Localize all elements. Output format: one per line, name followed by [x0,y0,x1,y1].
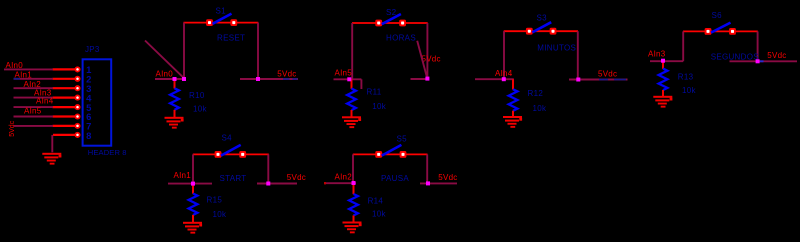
svg-text:AIn5: AIn5 [335,69,353,78]
wire node AIn1 [168,183,212,185]
svg-text:AIn0: AIn0 [6,61,24,70]
switch S3 right terminal [550,28,557,35]
svg-text:10k: 10k [372,102,386,111]
pin 5 dot [74,104,80,110]
wire top rail S3 [504,30,578,32]
svg-text:AIn0: AIn0 [156,69,174,78]
junction 5Vdc circuit 3 [576,78,580,82]
wire right vertical S2 [426,23,428,78]
svg-text:8: 8 [86,131,91,142]
ground circuit 4 [653,96,672,108]
wire top rail S2 [352,22,428,24]
connector JP3 body [83,59,112,145]
wire node AIn5 [334,78,362,80]
resistor R14 top lead [353,183,355,194]
svg-text:S2: S2 [386,8,397,17]
resistor R15 top lead [192,184,194,194]
svg-text:AIn2: AIn2 [24,80,42,89]
wire 5Vdc node circuit 6 [420,182,457,184]
wire pin 8 down to ground [51,135,53,152]
wire node AIn0 [155,78,184,80]
wire top rail S5 [353,153,428,155]
wire AIn1 to pin 2 [14,78,54,80]
switch S3 lever [532,22,551,32]
svg-text:AIn3: AIn3 [648,50,666,59]
stray diagonal wire [145,41,184,78]
svg-text:PAUSA: PAUSA [381,174,409,183]
wire left vertical S5 [352,154,354,183]
svg-text:S5: S5 [397,134,408,143]
svg-text:AIn5: AIn5 [24,106,42,115]
net tick 5Vdc circuit 3b [614,79,626,81]
wire right vertical S3 [577,31,579,79]
switch S2 left terminal [375,20,382,27]
svg-text:MINUTOS: MINUTOS [537,43,576,52]
svg-text:R14: R14 [368,196,384,205]
resistor R15 bottom lead [192,215,194,222]
pin 4 dot [74,95,80,101]
wire 5Vdc node circuit 1 [240,78,298,80]
wire top rail S6 [683,30,758,32]
junction AIn2 [352,181,356,185]
wire right vertical S4 [267,154,269,183]
net tick 5Vdc circuit 1b [293,78,298,80]
switch S6 lever [711,23,731,33]
pin 3 stub [53,87,78,89]
pin 2 stub [53,78,78,80]
net tick 5Vdc circuit 4 [760,60,764,62]
switch S5 right terminal [400,151,407,158]
ground circuit 2 [342,116,361,128]
wire AIn5 to pin 6 [14,116,54,118]
svg-text:10k: 10k [533,104,547,113]
svg-text:10k: 10k [213,210,227,219]
resistor R11 bottom lead [351,110,353,117]
junction 5Vdc circuit 1 [256,77,260,81]
resistor R10 top lead [174,79,176,89]
svg-text:SEGUNDOS: SEGUNDOS [711,53,759,62]
switch S1 right terminal [230,19,237,26]
svg-text:R13: R13 [678,73,694,82]
junction AIn1 [191,182,195,186]
pin 6 stub [53,115,78,117]
wire node AIn3 [650,60,683,62]
svg-text:AIn1: AIn1 [174,171,192,180]
svg-text:HEADER 8: HEADER 8 [88,148,127,157]
resistor R15 body [189,194,198,216]
ground circuit 5 [183,222,202,234]
resistor R12 top lead [512,79,514,89]
pin 5 stub [53,106,78,108]
svg-text:5Vdc: 5Vdc [438,173,457,182]
ground circuit 6 [343,222,362,234]
svg-text:10k: 10k [193,104,207,113]
svg-text:HORAS: HORAS [386,33,416,42]
wire left vertical S1 [183,23,185,79]
junction AIn0 resistor [173,77,177,81]
ground circuit 1 [165,117,184,129]
wire right vertical S5 [426,154,428,183]
switch S2 right terminal [399,20,406,27]
wire top rail S4 [193,153,269,155]
resistor R11 body [347,89,356,111]
wire node AIn5 stub down [360,79,362,89]
junction AIn0 corner [182,77,186,81]
svg-text:AIn2: AIn2 [335,173,353,182]
wire end dot AIn2 [324,182,326,184]
pin 2 dot [74,76,80,82]
svg-text:RESET: RESET [217,33,245,42]
wire left vertical S6 [682,31,684,61]
wire node AIn4 [475,78,514,80]
resistor R13 body [659,69,668,91]
wire AIn0 to pin 1 [4,68,53,70]
svg-text:5Vdc: 5Vdc [287,173,306,182]
wire AIn4 to pin 5 [14,106,54,108]
svg-text:AIn1: AIn1 [15,71,33,80]
svg-text:AIn4: AIn4 [495,69,513,78]
junction 5Vdc circuit 5 [266,182,270,186]
connector JP3 header block [83,45,127,157]
resistor R12 bottom lead [512,111,514,117]
wire AIn2 to pin 3 [14,87,54,89]
resistor R14 body [349,194,358,216]
pin 7 stub [53,125,78,127]
svg-text:10k: 10k [682,86,696,95]
pin 6 dot [74,113,80,119]
net tick 5Vdc circuit 3 [599,79,608,81]
switch S2 lever [382,14,401,24]
svg-text:JP3: JP3 [85,45,100,54]
resistor R13 top lead [662,61,664,69]
resistor R10 bottom lead [174,110,176,118]
junction AIn3 [661,59,665,63]
wire top rail S1 [184,22,259,24]
ground below header [42,153,61,165]
pin 4 stub [53,96,78,98]
svg-text:5Vdc: 5Vdc [277,70,296,79]
switch S5 left terminal [375,151,382,158]
switch S6 left terminal [705,28,712,35]
wire left vertical S4 [192,154,194,183]
svg-text:S4: S4 [222,134,233,143]
resistor R12 body [509,89,518,111]
resistor R11 top lead [351,79,353,89]
switch S3 left terminal [526,28,533,35]
power lead diagonal 5Vdc circuit 2 [417,41,427,77]
svg-text:R11: R11 [367,87,382,96]
svg-text:START: START [220,174,247,183]
wire 5Vdc to pin 7 [14,125,54,127]
resistor R13 bottom lead [662,90,664,96]
switch S1 left terminal [206,19,213,26]
pin 8 stub [53,134,77,136]
wire left vertical S2 [351,23,353,79]
svg-text:S6: S6 [712,11,723,20]
junction 5Vdc circuit 6 [426,181,430,185]
wire node AIn2 [325,182,357,184]
wire right vertical S1 [257,23,259,79]
pin 1 stub [53,68,78,70]
wire 5Vdc node circuit 5 [257,183,297,185]
svg-text:R12: R12 [528,89,544,98]
switch S4 lever [221,145,241,156]
svg-text:R15: R15 [207,196,223,205]
net tick 5Vdc circuit 1 [283,78,290,80]
resistor R10 body [170,88,179,110]
junction AIn5 [347,77,351,81]
svg-text:5Vdc: 5Vdc [422,55,441,64]
svg-text:AIn4: AIn4 [36,97,54,106]
junction 5Vdc circuit 2 [425,77,429,81]
svg-text:S1: S1 [216,6,227,15]
switch S4 left terminal [215,151,222,158]
ground circuit 3 [503,116,522,128]
net tick wire 2 [14,78,21,80]
wire AIn3 to pin 4 [14,97,54,99]
switch S5 lever [382,145,402,156]
svg-text:5Vdc: 5Vdc [598,70,617,79]
switch S4 right terminal [239,151,246,158]
resistor R14 bottom lead [353,215,355,221]
svg-text:5Vdc: 5Vdc [9,120,16,136]
svg-text:10k: 10k [372,210,386,219]
svg-text:5Vdc: 5Vdc [767,51,786,60]
wire 5Vdc node circuit 3 [569,79,628,81]
wire 5Vdc node circuit 4 [730,60,798,62]
svg-text:S3: S3 [537,13,548,22]
pin 7 dot [74,123,80,129]
pin 8 dot [74,132,80,138]
wire 5Vdc stub circuit 2 [411,78,428,80]
wire right vertical S6 [757,31,759,61]
pin 3 dot [74,85,80,91]
svg-text:R10: R10 [189,91,205,100]
junction 5Vdc circuit 4 [756,59,760,63]
wire left vertical S3 [503,31,505,79]
switch S6 right terminal [729,28,736,35]
pin 1 dot [74,66,80,72]
junction AIn4 [502,77,506,81]
switch S1 lever [213,14,232,24]
